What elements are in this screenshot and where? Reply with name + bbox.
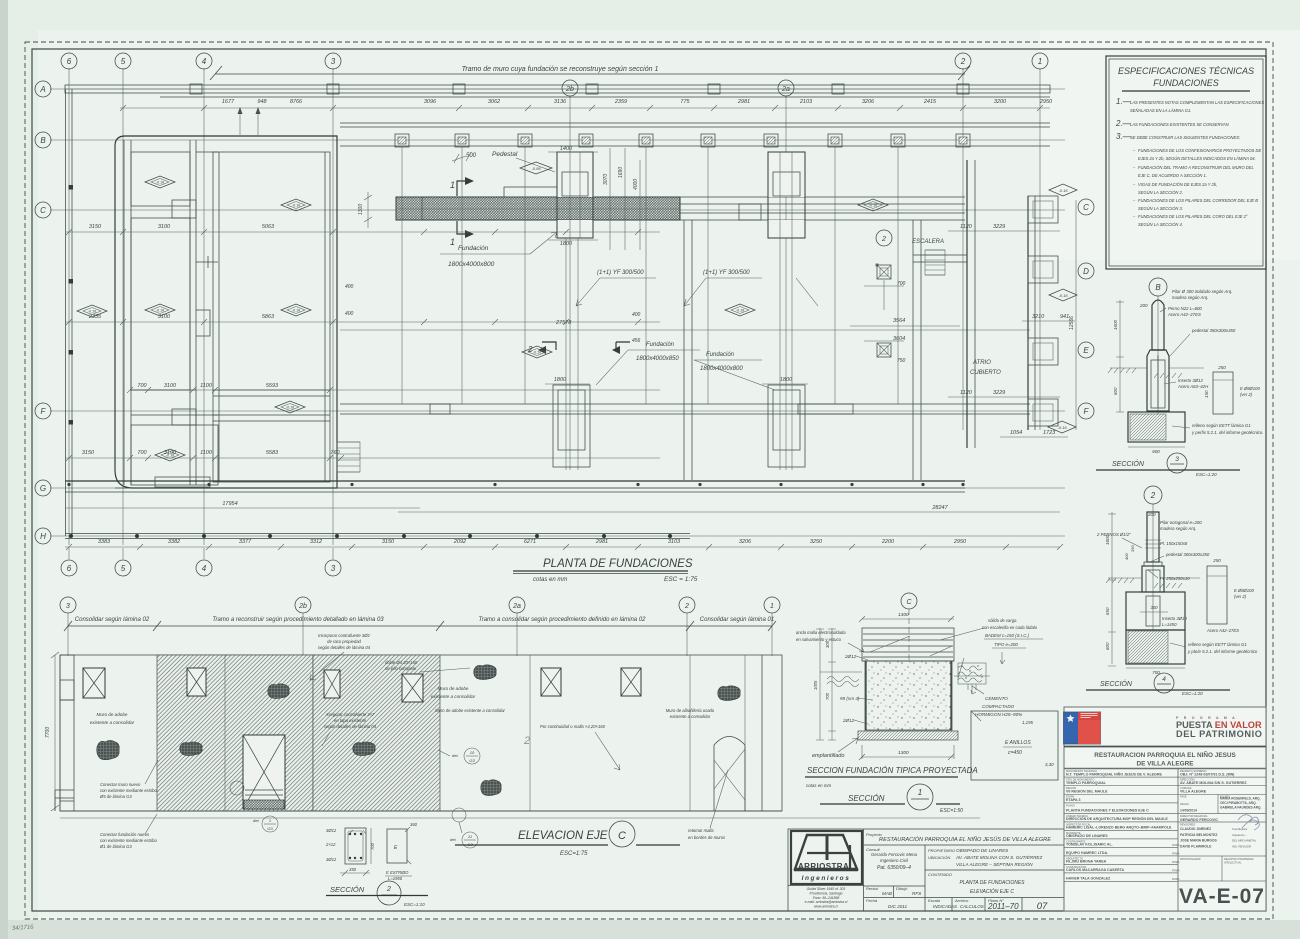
svg-text:2a: 2a	[781, 86, 790, 93]
svg-text:Fundación: Fundación	[458, 245, 489, 252]
svg-text:det.: det.	[253, 818, 260, 823]
svg-text:Pl. 150x150x8: Pl. 150x150x8	[1160, 541, 1188, 546]
ground line below elevation	[60, 810, 782, 812]
svg-text:5583: 5583	[266, 450, 279, 456]
svg-text:Por continuidad o malla ×4,20×: Por continuidad o malla ×4,20×160	[540, 724, 606, 729]
svg-text:RFS: RFS	[912, 891, 922, 896]
svg-text:relleno según EETT lámina G1: relleno según EETT lámina G1	[1192, 423, 1251, 428]
svg-text:UBICACIÓN: UBICACIÓN	[928, 855, 950, 860]
svg-text:ESC=1:20: ESC=1:20	[1196, 472, 1217, 477]
dim 28247	[398, 511, 1060, 513]
right white box	[971, 711, 1058, 780]
svg-text:Consolidar según lámina 01: Consolidar según lámina 01	[700, 617, 774, 623]
svg-text:2200: 2200	[881, 539, 895, 545]
svg-text:FUNDACIONES DE LOS PILARES DEL: FUNDACIONES DE LOS PILARES DEL CORREDOR …	[1138, 198, 1258, 203]
svg-text:det.: det.	[452, 753, 459, 758]
svg-text:OBISPADO DE LINARES: OBISPADO DE LINARES	[956, 848, 1009, 853]
svg-text:650: 650	[1105, 607, 1110, 615]
svg-text:Giulini Silver 1945 of. 303: Giulini Silver 1945 of. 303	[807, 887, 846, 891]
elevation annotation line	[68, 625, 772, 627]
svg-text:PLANTA DE FUNDACIONES: PLANTA DE FUNDACIONES	[543, 558, 693, 570]
svg-text:3250: 3250	[810, 539, 823, 545]
svg-text:Perno N22 L=600: Perno N22 L=600	[1168, 306, 1202, 311]
secfund left dim stack	[828, 628, 836, 740]
dim 1300 left of bar	[367, 192, 369, 228]
section4 foundation upper	[1126, 592, 1185, 630]
svg-text:948: 948	[257, 99, 267, 105]
svg-text:DAVID PLAWIROLE: DAVID PLAWIROLE	[1180, 844, 1212, 848]
svg-text:TEMPLO PARROQUIAL: TEMPLO PARROQUIAL	[1066, 781, 1107, 785]
svg-text:SECCION FUNDACIÓN TIPICA PROYE: SECCION FUNDACIÓN TIPICA PROYECTADA	[807, 766, 978, 775]
svg-text:G3: G3	[267, 826, 273, 831]
svg-text:3136: 3136	[554, 99, 567, 105]
svg-text:1677: 1677	[222, 99, 235, 105]
svg-text:CUBIERTO: CUBIERTO	[970, 370, 1001, 376]
svg-text:1300: 1300	[358, 204, 364, 215]
svg-text:Inserto 3Ø12: Inserto 3Ø12	[1178, 378, 1203, 383]
svg-text:12566: 12566	[1069, 316, 1075, 330]
grid bubbles left	[35, 81, 51, 97]
svg-text:Tramo a reconstruir según proc: Tramo a reconstruir según procedimiento …	[212, 617, 384, 623]
svg-text:1120: 1120	[960, 224, 973, 230]
svg-text:3150: 3150	[89, 224, 102, 230]
svg-text:madera según Arq.: madera según Arq.	[1172, 295, 1208, 300]
svg-text:AV. ABATE MOLINA CON S. GUTIÉR: AV. ABATE MOLINA CON S. GUTIÉRREZ	[955, 854, 1042, 860]
svg-text:1: 1	[1038, 57, 1042, 66]
flag star	[1067, 715, 1075, 723]
svg-text:existente a consolidar: existente a consolidar	[431, 694, 476, 699]
section cut 1	[457, 181, 465, 196]
svg-text:cotas en mm: cotas en mm	[806, 783, 831, 788]
svg-text:Fecha: Fecha	[866, 898, 878, 903]
svg-text:Muro de adobe: Muro de adobe	[97, 712, 128, 717]
svg-text:1,195: 1,195	[1022, 720, 1034, 725]
svg-text:INTELECTUAL: INTELECTUAL	[1224, 861, 1242, 865]
svg-text:y perfis 5.2.1. del informe ge: y perfis 5.2.1. del informe geotécnico.	[1191, 430, 1263, 435]
svg-text:LAS FUNDACIONES EXISTENTES SE: LAS FUNDACIONES EXISTENTES SE CONSERVAN	[1130, 122, 1229, 127]
svg-text:det.: det.	[450, 837, 457, 842]
section4 bubble 2	[1144, 486, 1162, 504]
svg-text:Consolidar según lámina 02: Consolidar según lámina 02	[75, 617, 150, 623]
svg-text:Escala: Escala	[928, 898, 941, 903]
svg-text:-0.16: -0.16	[1058, 293, 1068, 298]
svg-text:RESTAURACION PARROQUIA EL NIÑO: RESTAURACION PARROQUIA EL NIÑO JESUS	[1094, 750, 1236, 759]
svg-text:de raco propiedad: de raco propiedad	[327, 639, 361, 644]
svg-text:8766: 8766	[290, 99, 303, 105]
svg-text:2 PERNOS Ø1/2": 2 PERNOS Ø1/2"	[1096, 532, 1131, 537]
svg-text:Pat. 6350/09–4: Pat. 6350/09–4	[877, 865, 911, 871]
svg-text:retomar malla: retomar malla	[688, 828, 714, 833]
section4 stirrup	[1207, 566, 1227, 624]
svg-text:2415: 2415	[923, 99, 937, 105]
svg-text:ELEVACIÓN EJE C: ELEVACIÓN EJE C	[970, 888, 1014, 895]
small pier squares mid-plan	[876, 264, 878, 266]
svg-text:3100: 3100	[158, 224, 171, 230]
svg-text:700: 700	[137, 383, 147, 389]
svg-text:2: 2	[1150, 491, 1156, 500]
svg-text:FASE: FASE	[1180, 795, 1187, 799]
svg-text:SECCIÓN: SECCIÓN	[1112, 459, 1145, 468]
svg-text:SEGÚN LA SECCIÓN 3.: SEGÚN LA SECCIÓN 3.	[1138, 206, 1183, 211]
arriostra table	[863, 829, 865, 911]
svg-text:FECHA: FECHA	[1180, 802, 1189, 806]
svg-text:2359: 2359	[614, 99, 627, 105]
svg-text:SECCIÓN: SECCIÓN	[1100, 679, 1133, 688]
svg-text:con existente mediante estribo: con existente mediante estribo	[100, 838, 157, 843]
pier pedestal 2a	[768, 152, 805, 197]
secfund wall above	[862, 628, 954, 661]
svg-text:DIC 2011: DIC 2011	[888, 904, 908, 909]
svg-text:VIGAS DE FUNDACIÓN DE EJES 2a: VIGAS DE FUNDACIÓN DE EJES 2a Y 2b,	[1138, 182, 1217, 187]
svg-text:E ANILLOS: E ANILLOS	[1005, 740, 1031, 746]
svg-text:250: 250	[1212, 558, 1221, 563]
svg-text:E Ø8Ø100: E Ø8Ø100	[1240, 386, 1260, 391]
svg-text:pedestal 300x300x350: pedestal 300x300x350	[1165, 552, 1210, 557]
svg-text:5593: 5593	[266, 383, 279, 389]
svg-text:ATRIO: ATRIO	[972, 360, 991, 366]
grid bubble stubs bottom	[69, 548, 333, 559]
svg-text:360: 360	[410, 822, 418, 827]
svg-text:DEL MRO AMBTAL: DEL MRO AMBTAL	[1232, 839, 1257, 843]
svg-text:-0.16: -0.16	[1057, 425, 1067, 430]
dim 17954	[65, 507, 420, 509]
svg-text:C: C	[40, 206, 46, 215]
svg-text:3: 3	[331, 564, 336, 573]
svg-text:3070: 3070	[603, 174, 609, 185]
svg-text:en bordes de muros: en bordes de muros	[688, 835, 726, 840]
svg-text:HAMERIC LISAL–LORENZO BERG ARQ: HAMERIC LISAL–LORENZO BERG ARQTO–BRIP–FA…	[1066, 826, 1172, 830]
grid bubbles bottom	[61, 560, 77, 576]
svg-text:con escalerilla en cada ládalo: con escalerilla en cada ládalo	[982, 625, 1038, 630]
elevation door tramo2b	[243, 735, 285, 809]
svg-text:700: 700	[825, 692, 830, 700]
svg-text:4: 4	[202, 564, 207, 573]
atrio piers	[1028, 196, 1058, 223]
svg-text:SEGÚN LA SECCIÓN 2.: SEGÚN LA SECCIÓN 2.	[1138, 190, 1183, 195]
svg-text:VILLA ALEGRE: VILLA ALEGRE	[1180, 790, 1207, 794]
svg-text:3Ø12: 3Ø12	[326, 857, 337, 862]
svg-text:6: 6	[67, 564, 72, 573]
specs box frame	[1106, 56, 1266, 269]
svg-text:600: 600	[1113, 387, 1118, 395]
svg-text:350: 350	[349, 867, 357, 872]
svg-text:2: 2	[523, 735, 530, 747]
svg-text:Incorporar contrafuerte 3Ø2: Incorporar contrafuerte 3Ø2	[318, 633, 370, 638]
svg-text:3: 3	[66, 603, 70, 610]
svg-text:ESPECIFICACIONES TÉCNICAS: ESPECIFICACIONES TÉCNICAS	[1118, 66, 1254, 76]
svg-text:3383: 3383	[98, 539, 111, 545]
svg-text:D: D	[1083, 267, 1089, 276]
left interior dim rows	[65, 231, 660, 233]
titleblock left rows	[1064, 776, 1178, 778]
svg-text:TOMISLAV KOLJSARIC AL.: TOMISLAV KOLJSARIC AL.	[1066, 843, 1113, 847]
svg-text:1: 1	[918, 788, 922, 797]
svg-text:PLANTA DE FUNDACIONES: PLANTA DE FUNDACIONES	[959, 880, 1025, 886]
svg-text:2: 2	[386, 886, 391, 893]
svg-text:sólido de varga: sólido de varga	[988, 618, 1017, 623]
svg-text:de pño completo: de pño completo	[385, 666, 417, 671]
svg-text:-0.16: -0.16	[156, 309, 164, 313]
strip foundation 2b vertical	[553, 385, 590, 467]
svg-text:1800x4000x850: 1800x4000x850	[636, 356, 679, 362]
svg-text:3229: 3229	[993, 390, 1005, 396]
svg-text:-0.16: -0.16	[292, 309, 300, 313]
svg-text:G: G	[40, 484, 46, 493]
svg-text:1054: 1054	[1010, 430, 1022, 436]
secfund soil wavy left	[827, 677, 859, 687]
svg-text:FILJMU BRONA YAREA: FILJMU BRONA YAREA	[1066, 860, 1107, 864]
bottom dim chain	[65, 546, 1060, 548]
svg-text:C: C	[618, 830, 626, 842]
svg-text:6: 6	[67, 57, 72, 66]
svg-text:B: B	[40, 136, 46, 145]
svg-text:1690: 1690	[618, 167, 624, 178]
stone repair blobs	[97, 740, 119, 759]
svg-text:Ingeniero Civil: Ingeniero Civil	[880, 858, 909, 863]
svg-text:E: E	[1083, 346, 1089, 355]
svg-text:2981: 2981	[737, 99, 750, 105]
svg-text:1800x4000x800: 1800x4000x800	[700, 366, 743, 372]
svg-text:750: 750	[897, 358, 906, 364]
svg-text:4: 4	[202, 57, 207, 66]
svg-text:17954: 17954	[222, 501, 237, 507]
svg-text:ING. REVISOR: ING. REVISOR	[1232, 844, 1251, 848]
svg-text:Revisó: Revisó	[866, 886, 879, 891]
svg-text:y pto/e 5.2.1. del informe geo: y pto/e 5.2.1. del informe geotécnico	[1187, 649, 1258, 654]
svg-text:FIRMA: FIRMA	[1172, 852, 1180, 855]
svg-text:ESC=1:20: ESC=1:20	[1182, 691, 1203, 696]
left perimeter wall axis 6	[65, 89, 67, 536]
svg-text:BADEM c=150 (S.I.C.): BADEM c=150 (S.I.C.)	[985, 633, 1030, 638]
svg-text:07: 07	[1037, 901, 1048, 912]
svg-text:L=1950: L=1950	[388, 876, 403, 881]
svg-text:-0.16: -0.16	[533, 351, 541, 355]
svg-text:200: 200	[1147, 512, 1156, 517]
section4 baseplate	[1144, 562, 1162, 566]
internal rooms	[131, 152, 190, 206]
svg-text:14/09/2014: 14/09/2014	[1180, 809, 1197, 813]
svg-text:HORMIGON H25–90%: HORMIGON H25–90%	[975, 712, 1022, 717]
svg-text:3377: 3377	[239, 539, 252, 545]
chile flag logo	[1064, 712, 1101, 744]
svg-text:GERARDO FERCOVIC: GERARDO FERCOVIC	[1180, 818, 1218, 822]
svg-text:7700: 7700	[45, 727, 51, 738]
svg-text:PATRICIA BELMONTEZ: PATRICIA BELMONTEZ	[1180, 833, 1217, 837]
svg-text:JOSE MARIA BURGOS: JOSE MARIA BURGOS	[1180, 839, 1218, 843]
atrio walls	[966, 160, 968, 448]
svg-text:PLANTA FUNDACIONES Y ELEVACION: PLANTA FUNDACIONES Y ELEVACIONES EJE C	[1066, 809, 1149, 813]
svg-text:10: 10	[470, 750, 475, 755]
arriostra logo A glyph	[795, 835, 857, 869]
top dimension chain	[120, 107, 1050, 109]
elevation vertical joints	[224, 655, 226, 811]
svg-text:Ø1 de lámina G3: Ø1 de lámina G3	[99, 844, 132, 849]
svg-text:Muro de adobe: Muro de adobe	[438, 686, 469, 691]
svg-text:#8 (sm 4): #8 (sm 4)	[840, 696, 860, 701]
svg-text:1400: 1400	[560, 146, 573, 152]
svg-text:2981: 2981	[595, 539, 608, 545]
svg-text:5: 5	[121, 57, 126, 66]
svg-text:E Ø8Ø100: E Ø8Ø100	[1234, 588, 1254, 593]
svg-text:Pl. 250x250x10: Pl. 250x250x10	[1160, 576, 1190, 581]
svg-text:1723: 1723	[1043, 430, 1056, 436]
vertical dims near 2b	[609, 148, 611, 250]
svg-text:-0.16: -0.16	[736, 309, 744, 313]
svg-text:FIRMA: FIRMA	[1172, 869, 1180, 872]
elevation bubbles	[60, 597, 76, 613]
det callouts right of hatch	[464, 748, 480, 764]
svg-text:Fundación: Fundación	[646, 342, 675, 348]
svg-text:c=450: c=450	[1008, 750, 1022, 756]
svg-text:2103: 2103	[799, 99, 813, 105]
svg-text:FUNDACIONES DE LOS PILARES DEL: FUNDACIONES DE LOS PILARES DEL CORO DEL …	[1138, 214, 1248, 219]
svg-text:2: 2	[881, 236, 886, 243]
header restauracion	[1064, 746, 1266, 748]
section4 ground	[1108, 577, 1200, 579]
svg-text:3: 3	[1175, 456, 1179, 463]
svg-text:CALCULOS: CALCULOS	[960, 904, 984, 909]
svg-text:Pilar Ø 300 Soldado según Arq.: Pilar Ø 300 Soldado según Arq.	[1172, 289, 1232, 294]
svg-text:Conectar fundación nueva: Conectar fundación nueva	[100, 832, 150, 837]
secfund bubble C	[901, 593, 917, 609]
svg-text:-0.95: -0.95	[531, 166, 541, 171]
svg-text:456: 456	[632, 338, 641, 344]
svg-text:Inserto 3Ø10: Inserto 3Ø10	[1162, 616, 1187, 621]
secfund foundation body stippled	[865, 661, 952, 730]
svg-text:941: 941	[1060, 314, 1069, 320]
svg-text:1100: 1100	[200, 383, 213, 389]
svg-text:PROPIETARIO: PROPIETARIO	[928, 848, 955, 853]
svg-text:(ver 2): (ver 2)	[1240, 392, 1253, 397]
section3 pedestal	[1147, 350, 1169, 411]
arriostra logo box	[791, 831, 862, 884]
svg-text:www.arriostra.cl: www.arriostra.cl	[814, 905, 838, 909]
svg-text:1800x4000x800: 1800x4000x800	[448, 261, 495, 268]
svg-text:Pedestal: Pedestal	[492, 151, 518, 158]
svg-text:Pilar octogonal e=200: Pilar octogonal e=200	[1160, 520, 1202, 525]
hatched foundation bar axis C	[396, 197, 680, 220]
svg-text:(1+1) YF 300/500: (1+1) YF 300/500	[703, 270, 750, 276]
elevation arched door	[714, 737, 745, 812]
svg-text:LAS PRESENTES NOTAS COMPLEMENT: LAS PRESENTES NOTAS COMPLEMENTAN LAS ESP…	[1130, 100, 1264, 105]
svg-text:760: 760	[330, 450, 340, 456]
svg-text:DEL PATRIMONIO: DEL PATRIMONIO	[1176, 729, 1263, 739]
svg-text:Fundación: Fundación	[706, 352, 735, 358]
svg-text:600: 600	[1105, 642, 1110, 650]
svg-text:doble Ø4,20×150: doble Ø4,20×150	[385, 660, 418, 665]
svg-text:5: 5	[121, 564, 126, 573]
svg-text:CLAUDIO JIMENEZ: CLAUDIO JIMENEZ	[1180, 827, 1211, 831]
svg-text:e-mail: arriostra@arriostra.cl: e-mail: arriostra@arriostra.cl	[805, 900, 848, 904]
svg-text:CEMENTO: CEMENTO	[985, 696, 1008, 701]
svg-text:COMPACTADO: COMPACTADO	[982, 704, 1015, 709]
svg-text:SECCIÓN: SECCIÓN	[848, 794, 885, 803]
secfund soil right block	[958, 663, 986, 684]
svg-text:3206: 3206	[739, 539, 752, 545]
svg-text:emplantillado: emplantillado	[812, 753, 844, 759]
svg-text:TIPO e=200: TIPO e=200	[994, 642, 1018, 647]
svg-text:2011–70: 2011–70	[987, 902, 1019, 911]
svg-text:-0.16: -0.16	[869, 204, 877, 208]
section cut 2	[542, 342, 556, 350]
svg-text:(ver 2): (ver 2)	[1234, 594, 1247, 599]
svg-text:FIRMA: FIRMA	[1172, 861, 1180, 864]
svg-text:2×12: 2×12	[325, 842, 336, 847]
svg-text:-0.16: -0.16	[156, 181, 164, 185]
svg-text:-0.16: -0.16	[166, 454, 174, 458]
section4 pedestal	[1142, 566, 1164, 592]
perimeter wall axis H	[65, 533, 690, 535]
svg-text:en salvamiento y estuco: en salvamiento y estuco	[796, 637, 842, 642]
svg-text:1800: 1800	[780, 377, 793, 383]
grid axis vertical lines	[68, 68, 70, 545]
svg-text:INDICADAS: INDICADAS	[933, 904, 957, 909]
svg-text:1800: 1800	[554, 377, 567, 383]
svg-text:150: 150	[1204, 390, 1209, 398]
svg-text:775: 775	[680, 99, 690, 105]
svg-text:3210: 3210	[1032, 314, 1045, 320]
rebar E rect	[387, 829, 407, 863]
svg-text:2Ø12: 2Ø12	[842, 718, 855, 723]
svg-text:ESC=1:10: ESC=1:10	[404, 902, 425, 907]
svg-text:GABRIELA FAUNDES ARQ.: GABRIELA FAUNDES ARQ.	[1220, 806, 1261, 810]
svg-text:3,30: 3,30	[1045, 762, 1054, 767]
svg-text:600: 600	[1152, 449, 1160, 454]
svg-text:AV. ABATE MOLINA S/N S. GUTIER: AV. ABATE MOLINA S/N S. GUTIERREZ	[1180, 781, 1247, 785]
svg-text:1300: 1300	[898, 750, 909, 756]
svg-text:3100: 3100	[158, 314, 171, 320]
svg-text:2: 2	[684, 603, 689, 610]
svg-text:1005: 1005	[813, 680, 818, 690]
small up arrows below top dims	[240, 110, 258, 135]
svg-text:Fono: 56–241898: Fono: 56–241898	[813, 896, 840, 900]
svg-text:pedestal 350x300x350: pedestal 350x300x350	[1191, 328, 1236, 333]
svg-text:relleno según EETT lámina G1: relleno según EETT lámina G1	[1188, 642, 1247, 647]
strip foundation 2a vertical	[768, 385, 805, 467]
wall axis A top	[65, 85, 1050, 93]
svg-text:Providencia, Santiago: Providencia, Santiago	[810, 891, 843, 895]
svg-text:5063: 5063	[262, 224, 275, 230]
svg-text:HAVIER TALA GONZALEZ: HAVIER TALA GONZALEZ	[1066, 877, 1111, 881]
svg-text:B: B	[1155, 283, 1161, 292]
svg-text:Acero A42–27ES: Acero A42–27ES	[1206, 628, 1239, 633]
svg-text:RESTAURACIÓN PARROQUIA EL NIÑO: RESTAURACIÓN PARROQUIA EL NIÑO JESÚS DE …	[879, 836, 1051, 843]
svg-text:E ESTRIBO: E ESTRIBO	[386, 870, 409, 875]
svg-text:CARLOS MACARRAGA CASERTA: CARLOS MACARRAGA CASERTA	[1066, 868, 1125, 872]
svg-text:1300: 1300	[898, 612, 909, 618]
svg-text:MARIA ROSENFELD, ARQ.: MARIA ROSENFELD, ARQ.	[1220, 797, 1261, 801]
svg-text:3100: 3100	[164, 383, 177, 389]
svg-text:Asegurar contrafuerte 3×7: Asegurar contrafuerte 3×7	[325, 712, 375, 717]
svg-text:Tramo de muro cuya fundación s: Tramo de muro cuya fundación se reconstr…	[462, 66, 659, 73]
secfund top dim 1300	[862, 618, 954, 620]
titleblock right rows	[1178, 776, 1266, 778]
upper nave wall lines	[340, 122, 1050, 124]
section3 bubble B	[1149, 278, 1167, 296]
svg-text:VILLA ALEGRE – SÉPTIMA REGIÓN: VILLA ALEGRE – SÉPTIMA REGIÓN	[956, 861, 1033, 867]
svg-text:con existente mediante estribo: con existente mediante estribo	[100, 788, 157, 793]
nave divider walls	[684, 220, 921, 480]
svg-text:4000: 4000	[633, 179, 639, 190]
svg-text:3564: 3564	[893, 318, 905, 324]
svg-text:2092: 2092	[453, 539, 466, 545]
svg-text:en tapa existente: en tapa existente	[334, 718, 367, 723]
svg-text:Gerardo Fercovic Mena: Gerardo Fercovic Mena	[871, 852, 918, 857]
svg-text:SE DEBE CONSTRUIR LAS SIGUIENT: SE DEBE CONSTRUIR LAS SIGUIENTES FUNDACI…	[1130, 135, 1240, 140]
svg-text:1120: 1120	[960, 390, 973, 396]
elevation wall outline	[60, 655, 782, 811]
svg-text:VA-E-07: VA-E-07	[1179, 885, 1265, 908]
